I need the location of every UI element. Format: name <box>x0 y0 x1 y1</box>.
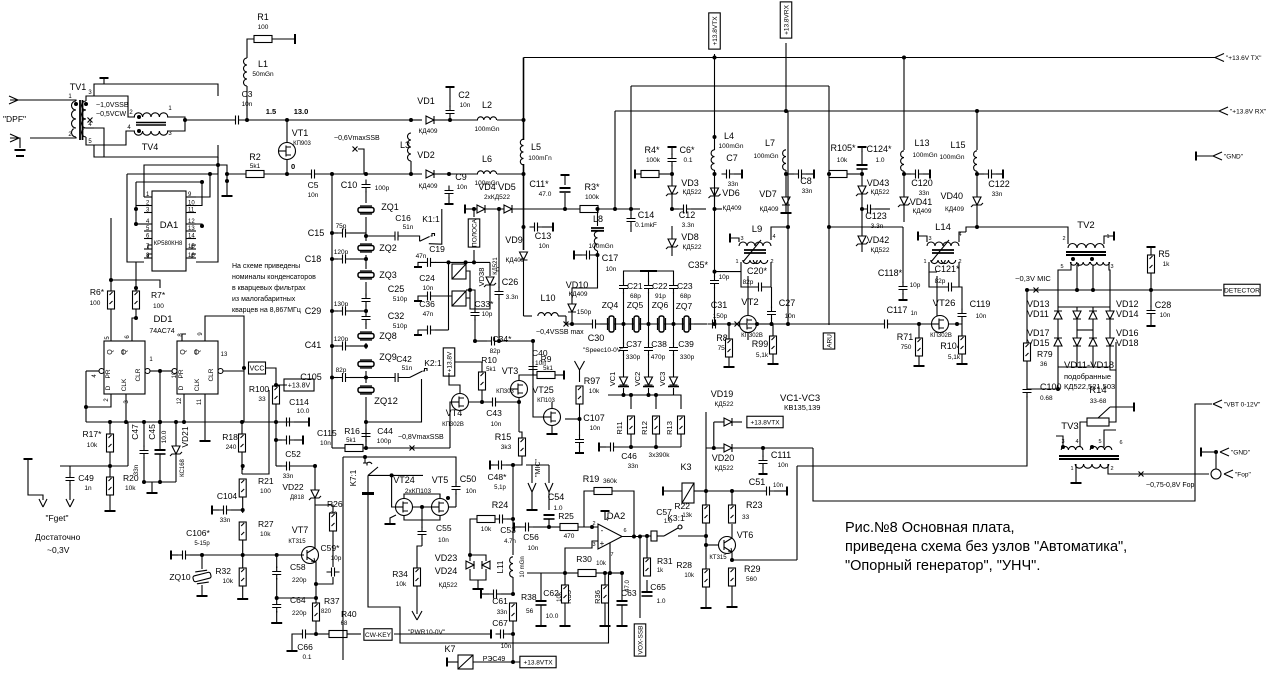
svg-text:ZQ7: ZQ7 <box>676 301 693 311</box>
terminal C17 left <box>573 251 575 260</box>
c7 right <box>734 173 741 175</box>
svg-text:КТ315: КТ315 <box>288 539 306 545</box>
svg-text:100: 100 <box>260 488 271 495</box>
resistor R100 <box>273 386 280 404</box>
x1027 from detector <box>1026 290 1028 344</box>
vt2 gate wire <box>737 323 739 325</box>
svg-text:R2: R2 <box>249 152 261 162</box>
svg-text:510p: 510p <box>393 296 408 303</box>
node c18 bus <box>330 257 334 261</box>
svg-text:DA2: DA2 <box>607 511 625 522</box>
svg-text:ZQ10: ZQ10 <box>169 572 191 582</box>
vt6 base wire <box>706 544 718 546</box>
transistor VT25 <box>544 409 561 426</box>
r8 top <box>729 324 737 339</box>
switch K7:1 contact <box>363 462 372 465</box>
r29 bottom <box>731 586 733 606</box>
svg-text:C6*: C6* <box>679 145 695 155</box>
svg-text:~0,3V MIC: ~0,3V MIC <box>1015 274 1051 283</box>
bus x829 down <box>828 86 830 325</box>
tv3 pin3 wire <box>1056 436 1063 447</box>
C36 left stub <box>418 330 423 334</box>
net DETECTOR <box>1224 284 1260 296</box>
vt6 emitter down <box>731 552 733 560</box>
vd bottom <box>470 569 486 580</box>
k7 left wire <box>447 661 458 663</box>
transformer L14 core <box>932 250 954 253</box>
r5 bottom <box>1150 273 1152 290</box>
TV4 core <box>136 123 166 126</box>
l15 bottom <box>976 171 978 197</box>
wire L1 bottom <box>246 86 248 120</box>
node base line <box>241 553 245 557</box>
svg-text:10n: 10n <box>606 266 617 273</box>
tv3 left vert <box>1079 430 1081 447</box>
capacitor C26 <box>495 287 504 300</box>
DA1 top wire1 <box>144 165 218 197</box>
wire C3 right <box>243 119 332 121</box>
wire R1 right <box>272 38 295 40</box>
DA1 pin 3 stub <box>144 212 152 214</box>
node vt2 gate <box>727 322 731 326</box>
C52 left <box>276 465 282 467</box>
TV4 dot a <box>137 115 141 119</box>
svg-text:0.1: 0.1 <box>302 654 311 661</box>
terminal R1 <box>294 34 296 44</box>
ground R8 <box>724 366 735 368</box>
node C13 <box>522 225 526 229</box>
C29 left <box>332 310 338 312</box>
net VOX-SSB <box>634 624 646 656</box>
R18 top <box>241 422 243 434</box>
wire c5 to c10 <box>332 173 366 175</box>
r35 bottom <box>564 603 566 625</box>
c62 bottom <box>540 605 542 625</box>
inductor L1 <box>244 58 247 86</box>
c28 bottom <box>1150 317 1152 325</box>
svg-text:C22: C22 <box>652 281 668 291</box>
r34 bottom <box>416 586 418 614</box>
c54 bottom <box>548 519 550 527</box>
r23 top <box>731 491 733 505</box>
terminal C111 <box>759 473 768 475</box>
vd24 top <box>470 555 486 561</box>
svg-text:L10: L10 <box>540 293 555 303</box>
l4 bottom <box>714 170 716 209</box>
resistor R30 <box>578 570 596 577</box>
TV2 dot b <box>1090 257 1094 261</box>
svg-text:36: 36 <box>1040 361 1048 368</box>
C49 top <box>69 466 71 474</box>
ground input2 <box>16 155 24 157</box>
resistor R31 <box>644 558 651 576</box>
C47 bottom <box>143 457 145 482</box>
svg-text:10k: 10k <box>684 573 695 579</box>
svg-text:14: 14 <box>188 234 195 240</box>
r99 bottom <box>772 354 774 363</box>
TV2 secondary b <box>1090 262 1109 265</box>
c23 up <box>673 292 675 324</box>
arrow Fget b <box>66 499 74 507</box>
svg-text:10n: 10n <box>460 102 471 109</box>
C24 right <box>435 295 452 297</box>
svg-text:КД522: КД522 <box>682 189 701 196</box>
relay K2 <box>452 291 466 306</box>
r32 bottom <box>242 586 244 598</box>
zener VD40 <box>971 197 983 207</box>
svg-text:3.3n: 3.3n <box>506 294 519 301</box>
crystal ZQ3 <box>358 271 374 279</box>
capacitor C61 <box>489 590 502 599</box>
wire r100 top to tag <box>276 381 287 385</box>
resistor R23 <box>729 505 736 523</box>
vd19 vertical <box>713 422 715 448</box>
svg-text:0.1mkF: 0.1mkF <box>635 222 657 229</box>
capacitor C106* <box>178 551 191 560</box>
svg-text:VD9: VD9 <box>505 235 523 245</box>
filter to c31 <box>694 323 707 325</box>
c59 top <box>332 544 334 567</box>
svg-text:L1: L1 <box>258 59 268 69</box>
connector +13.8V RX <box>1219 107 1228 115</box>
L3 bottom <box>410 161 412 174</box>
svg-text:R38: R38 <box>521 592 537 602</box>
C45 top <box>159 422 161 450</box>
c22 up <box>648 292 650 324</box>
DA1 pin7 hook <box>148 245 152 249</box>
svg-text:ZQ9: ZQ9 <box>379 352 397 362</box>
c121 wires <box>929 272 944 287</box>
terminal L9 pin3 <box>729 234 731 243</box>
arrow input bottom <box>10 134 19 142</box>
node c104 <box>241 508 245 512</box>
ground VD23 <box>473 588 484 590</box>
C19 left stub <box>418 262 423 266</box>
node l13/c120 <box>902 172 906 176</box>
tag tx down <box>714 54 716 58</box>
vd22 top <box>314 466 316 490</box>
svg-text:13k: 13k <box>682 513 693 519</box>
L14 pin3 lead <box>919 236 927 242</box>
node da2 out <box>632 535 636 539</box>
svg-text:5k1: 5k1 <box>486 367 496 373</box>
L3 adjust mark <box>353 147 358 152</box>
svg-text:0.68: 0.68 <box>1040 395 1053 402</box>
node col242 top <box>241 464 245 468</box>
c107 bottom <box>579 446 581 452</box>
capacitor C34* <box>487 337 500 346</box>
svg-text:C43: C43 <box>486 408 502 418</box>
c65 wires <box>646 580 648 592</box>
TV3 core <box>1059 456 1119 459</box>
svg-text:100k: 100k <box>585 194 600 201</box>
capacitor C14 <box>627 214 636 227</box>
vd42 bottom <box>861 244 863 252</box>
svg-text:TV2: TV2 <box>1077 220 1094 231</box>
K2:1 down wire <box>366 379 422 422</box>
inductor L3 <box>408 133 412 161</box>
crystal ZQ5 <box>633 316 641 332</box>
node tx rail <box>713 56 717 60</box>
TV4 pin3 lead <box>167 120 185 131</box>
varicap VC1 bar <box>618 386 629 388</box>
vt4 to c43 <box>468 401 488 403</box>
ground R71 <box>914 365 925 367</box>
TV2 core <box>1066 252 1106 255</box>
node r12 top <box>654 393 658 397</box>
PWR arrow <box>412 611 422 620</box>
svg-text:470: 470 <box>564 533 575 540</box>
svg-text:6: 6 <box>623 528 626 534</box>
terminal GND2 <box>1200 448 1202 457</box>
svg-text:11: 11 <box>188 208 195 214</box>
resistor R27 <box>239 522 246 540</box>
svg-text:C17: C17 <box>602 253 619 263</box>
c21 up <box>623 292 625 324</box>
svg-text:R22: R22 <box>674 501 690 511</box>
wire TV4 frame bottom <box>94 145 218 157</box>
wire R1 left to L1 <box>247 39 254 58</box>
vd23 top <box>469 530 471 561</box>
svg-text:R97: R97 <box>584 376 601 386</box>
svg-text:10k: 10k <box>596 561 607 567</box>
vd40 bottom <box>976 205 978 227</box>
capacitor C53 <box>495 515 508 524</box>
bridge column 4 bot <box>1109 346 1111 367</box>
node r11 top <box>629 393 633 397</box>
x513 down <box>512 519 514 555</box>
TV4 dot b <box>137 129 141 133</box>
svg-text:C15: C15 <box>308 228 325 238</box>
terminal C2 top <box>446 86 455 88</box>
node r11 bot <box>629 445 633 449</box>
svg-text:100k: 100k <box>646 157 661 164</box>
capacitor C121* <box>944 283 957 292</box>
capacitor C20* <box>754 283 767 292</box>
svg-text:CLR: CLR <box>135 368 142 381</box>
svg-text:C51: C51 <box>749 477 766 487</box>
filter line <box>607 323 707 325</box>
DA1 bus dot a <box>200 180 204 184</box>
capacitor C38 <box>644 343 653 356</box>
terminal C122 <box>1002 170 1004 179</box>
svg-text:10n: 10n <box>320 440 331 447</box>
r104 bottom <box>961 354 963 363</box>
c118 bottom <box>902 293 904 299</box>
svg-text:10k: 10k <box>260 531 271 538</box>
C52 right <box>294 465 315 467</box>
L9 pin3 lead <box>731 238 739 242</box>
node l9 pin1/c35 <box>713 270 717 274</box>
svg-text:R79: R79 <box>1037 349 1053 359</box>
C24 left stub <box>418 296 423 300</box>
k3 right wire <box>694 490 706 492</box>
resistor R6* <box>108 291 115 309</box>
DA1 pin 11 stub <box>186 212 196 214</box>
DD1.2 pin10 wire <box>160 370 172 372</box>
feeder x523 mid <box>523 164 525 250</box>
svg-text:C30: C30 <box>588 333 605 343</box>
zener VD6 <box>709 188 721 198</box>
capacitor C15 <box>338 229 351 238</box>
capacitor C49 <box>66 473 75 486</box>
terminal C46 <box>598 443 600 452</box>
terminal R14 wiper <box>1133 403 1135 412</box>
c63 top <box>621 573 623 601</box>
relay K3 <box>682 483 694 503</box>
svg-text:"DPF": "DPF" <box>3 114 26 124</box>
svg-text:VD1: VD1 <box>417 96 435 106</box>
r71 top <box>918 324 920 338</box>
C105 wires <box>350 377 366 379</box>
svg-text:C42: C42 <box>396 354 412 364</box>
capacitor C10 <box>362 180 371 193</box>
svg-text:VT25: VT25 <box>532 385 554 395</box>
c51 left <box>706 490 762 492</box>
inductor L15 <box>974 151 977 171</box>
DD1.1 CLR bubble <box>145 369 150 374</box>
DA1 bus dot d <box>208 172 212 176</box>
svg-text:~0,75-0,8V Fop: ~0,75-0,8V Fop <box>1146 482 1195 489</box>
DD1.1 pin2 wire <box>86 371 111 407</box>
C36 right <box>435 329 449 331</box>
node r10/vt4 <box>480 400 484 404</box>
capacitor C17 <box>582 251 595 260</box>
R20 bottom <box>109 495 111 510</box>
ground R2 <box>222 195 233 197</box>
c59 bottom link <box>316 577 333 584</box>
node r12 bot <box>654 445 658 449</box>
DA1 pin 12 stub <box>186 223 196 225</box>
x714 down <box>714 58 716 151</box>
r99 top <box>748 324 773 336</box>
ground R32 <box>237 598 248 600</box>
svg-text:50mGn: 50mGn <box>252 71 274 78</box>
c6 top <box>671 148 673 155</box>
x904 down <box>903 58 905 151</box>
c51 right <box>774 490 786 492</box>
svg-text:КП302В: КП302В <box>442 422 464 428</box>
node c53/l11 <box>511 517 515 521</box>
r14 right wire <box>1109 342 1116 422</box>
svg-text:VD43: VD43 <box>867 178 890 188</box>
capacitor C118* <box>899 282 908 295</box>
vc1 bottom <box>623 388 625 395</box>
zener VD21 <box>170 446 182 456</box>
svg-text:C16: C16 <box>395 213 411 223</box>
switch K3:1 <box>664 528 684 536</box>
svg-text:C58: C58 <box>290 562 306 572</box>
C33 top wire <box>470 290 475 309</box>
svg-text:C44: C44 <box>377 426 393 436</box>
DD1.1 pin1 wire <box>150 370 160 372</box>
wire C11 to R3 <box>565 208 586 210</box>
bridge column 3 mid <box>1092 319 1094 338</box>
svg-text:10k: 10k <box>125 485 136 492</box>
vt7e column <box>315 598 317 603</box>
IC DA1 box <box>152 191 186 271</box>
svg-text:"+13.6V TX": "+13.6V TX" <box>1226 55 1262 62</box>
bridge column 1 wire <box>1057 307 1059 311</box>
c64 link to vt7e <box>277 597 316 599</box>
DA1 bus dot g <box>109 278 113 282</box>
node c64 top <box>275 596 279 600</box>
feeder to L10 <box>524 315 533 317</box>
switch K1:1 <box>420 234 435 242</box>
resistor R4* <box>641 171 659 178</box>
c20 wires <box>741 272 754 287</box>
DA1 wire pin12 <box>196 224 202 226</box>
tv3 pin1 down <box>1075 464 1077 482</box>
c33 to c34 <box>475 340 487 342</box>
crystal ZQ7 <box>683 316 691 332</box>
c121 right <box>956 262 959 287</box>
capacitor C63 <box>617 601 628 605</box>
bridge diode bottom 4 <box>1106 338 1114 346</box>
connector GND <box>1213 152 1222 160</box>
svg-text:VC2: VC2 <box>633 372 642 387</box>
zener VD42 <box>856 236 868 246</box>
ground C62 <box>536 625 547 627</box>
crystal ZQ9 <box>358 360 374 368</box>
C115 right <box>294 439 302 441</box>
capacitor C44 <box>362 429 371 442</box>
svg-text:C49: C49 <box>78 473 94 483</box>
terminal CW/C67 <box>490 630 492 639</box>
vox wire up <box>639 536 641 618</box>
DD1.1 pin4 wire <box>86 370 99 372</box>
capacitor C37 <box>619 343 628 356</box>
terminal C13 <box>552 223 554 232</box>
svg-text:R32: R32 <box>215 566 231 576</box>
vt5 top wire <box>439 494 441 499</box>
vd3 top <box>671 174 673 186</box>
svg-text:R105*: R105* <box>830 143 856 153</box>
resistor R28 <box>703 569 710 587</box>
c43 right <box>500 401 519 403</box>
svg-text:C41: C41 <box>305 340 322 350</box>
svg-text:КП103: КП103 <box>537 398 555 404</box>
node l9 pin4 <box>786 225 790 229</box>
POLOSA stub up <box>473 209 475 217</box>
diode VD2 <box>426 170 434 178</box>
capacitor C8 <box>794 170 807 179</box>
capacitor C40 <box>529 362 538 375</box>
svg-text:0: 0 <box>291 162 295 171</box>
svg-text:100mGn: 100mGn <box>940 154 965 161</box>
DA1 pin 15 stub <box>186 248 196 250</box>
gnd2 wire <box>1201 451 1216 453</box>
svg-text:"+13.8V RX": "+13.8V RX" <box>1230 108 1267 115</box>
c111 bottom <box>762 467 764 473</box>
inductor L7 <box>783 150 786 170</box>
VD21 bottom stub <box>175 454 177 482</box>
terminal C9 bottom <box>445 203 454 205</box>
k71 route <box>368 495 610 643</box>
svg-text:C32: C32 <box>388 311 405 321</box>
svg-text:K7: K7 <box>444 644 455 654</box>
diode VD10 <box>568 304 576 312</box>
wire L2 to x523 <box>497 119 524 121</box>
zq12-down <box>365 397 367 448</box>
svg-text:DD1: DD1 <box>153 314 172 325</box>
C2 up <box>449 88 451 107</box>
svg-text:10k: 10k <box>396 581 407 588</box>
bridge bottom rail <box>1058 366 1110 368</box>
node L3 bottom <box>409 172 413 176</box>
TV3 dot b <box>1090 445 1094 449</box>
svg-text:VD16: VD16 <box>1116 328 1139 338</box>
